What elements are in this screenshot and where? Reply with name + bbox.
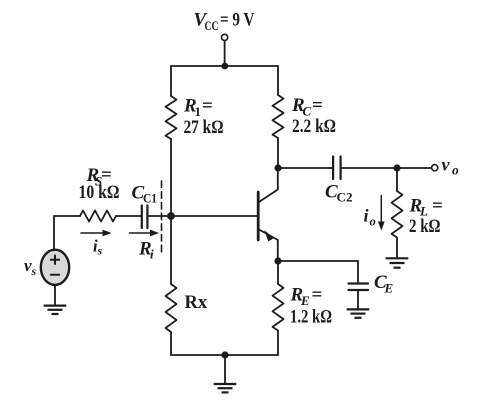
- svg-text:=: =: [312, 285, 323, 306]
- ground (below vs): [44, 306, 67, 314]
- resistor Rx: [166, 284, 177, 332]
- svg-text:s: s: [97, 244, 103, 258]
- resistor RE: [273, 284, 284, 330]
- wire vs top: [53, 216, 55, 250]
- wire down to CE: [357, 261, 359, 283]
- svg-text:10 kΩ: 10 kΩ: [79, 182, 120, 203]
- svg-text:=: =: [432, 196, 443, 217]
- node emitter junction: [274, 257, 281, 264]
- resistor R1: [166, 96, 177, 139]
- source vs: [41, 250, 69, 285]
- svg-text:2 kΩ: 2 kΩ: [409, 216, 441, 237]
- svg-text:C2: C2: [337, 190, 353, 205]
- wire left branch upper: [170, 66, 172, 96]
- wire collector node to CC2: [278, 167, 332, 169]
- svg-text:C1: C1: [143, 191, 157, 206]
- wire RC to collector node: [277, 138, 279, 168]
- wire CE to ground: [357, 291, 359, 308]
- svg-text:27 kΩ: 27 kΩ: [184, 117, 224, 138]
- svg-text:s: s: [31, 264, 37, 278]
- transistor Q1 base bar: [257, 192, 260, 240]
- transistor Q1 collector lead: [259, 168, 278, 202]
- wire junction to ground: [224, 355, 226, 383]
- wire output node to vo terminal: [397, 167, 431, 169]
- source vs plus sign: [51, 256, 59, 265]
- label VCC = 9 V: [24, 10, 459, 328]
- wire base node down to Rx: [170, 216, 172, 284]
- wire bottom rail: [171, 354, 278, 356]
- wire base node to transistor base: [171, 215, 257, 217]
- wire VCC terminal to top rail: [224, 41, 226, 66]
- node Ri reference plane (dashed): [161, 181, 163, 254]
- node collector junction: [274, 164, 281, 171]
- wire output node to RL: [396, 168, 398, 191]
- capacitor CC1: [141, 206, 143, 229]
- wire RL to ground: [396, 238, 398, 257]
- wire emitter node to CE: [278, 260, 358, 262]
- transistor Q1 emitter lead: [259, 230, 278, 262]
- svg-text:E: E: [384, 281, 394, 296]
- svg-text:CC: CC: [205, 18, 219, 33]
- source vs minus sign: [51, 274, 59, 276]
- node base junction: [167, 212, 175, 220]
- svg-text:i: i: [364, 206, 369, 226]
- node VCC supply terminal: [222, 34, 228, 40]
- node bottom-rail junction: [221, 351, 228, 358]
- ground (below RL): [386, 258, 409, 267]
- svg-text:Rx: Rx: [185, 293, 208, 313]
- wire RS to CC1: [116, 215, 141, 217]
- ground (below CE): [347, 309, 370, 317]
- svg-text:o: o: [370, 215, 376, 229]
- wire RE to bottom rail: [277, 331, 279, 355]
- svg-text:v: v: [442, 155, 451, 175]
- node top-rail junction: [221, 63, 228, 70]
- wire right branch upper: [277, 66, 279, 95]
- arrow is: [81, 232, 106, 234]
- wire R1 to base node: [170, 139, 172, 216]
- capacitor CE: [349, 282, 369, 284]
- transistor Q1 emitter arrowhead: [264, 230, 274, 241]
- arrow Ri: [130, 232, 153, 234]
- svg-text:1.2 kΩ: 1.2 kΩ: [290, 307, 332, 328]
- resistor RC: [273, 95, 284, 138]
- resistor RL: [392, 191, 403, 238]
- svg-text:i: i: [150, 247, 154, 262]
- wire top rail: [171, 65, 278, 67]
- resistor RS: [80, 211, 116, 222]
- wire CC2 to output node: [342, 167, 397, 169]
- svg-text:= 9 V: = 9 V: [220, 10, 255, 31]
- wire vs to RS: [54, 215, 80, 217]
- svg-text:o: o: [452, 163, 459, 178]
- wire Rx to bottom rail: [170, 332, 172, 355]
- arrow io: [380, 196, 382, 224]
- ground (bottom center): [214, 384, 237, 392]
- wire emitter node to RE: [277, 261, 279, 284]
- wire vs bottom to ground: [54, 285, 56, 305]
- svg-text:=: =: [312, 95, 323, 116]
- node output junction: [393, 164, 400, 171]
- svg-text:=: =: [202, 96, 213, 117]
- capacitor CC2: [332, 157, 334, 180]
- wire CC1 to base node: [149, 215, 172, 217]
- node vo terminal: [432, 165, 438, 171]
- svg-text:2.2 kΩ: 2.2 kΩ: [292, 116, 336, 137]
